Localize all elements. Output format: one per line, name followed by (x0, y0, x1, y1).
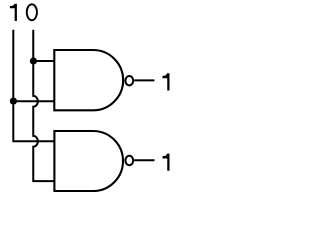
NAND gate U1 inversion bubble (125, 76, 133, 85)
NAND gate U1 body (54, 50, 123, 110)
wire U1 output (134, 79, 154, 81)
node B junction dot (30, 57, 37, 64)
NAND gate U2 body (54, 131, 123, 191)
NAND gate U2 inversion bubble (125, 156, 133, 165)
wire U2 output (134, 159, 154, 161)
input label 1 (10, 4, 17, 21)
wire A vertical (input 1) with corner to U2 upper input (13, 30, 54, 142)
wire A branch to U1 lower input (13, 100, 54, 102)
input label 0 (27, 4, 37, 20)
wire B vertical (input 0) with hops and corner to U2 lower input (33, 30, 54, 181)
wire B branch to U1 upper input (33, 60, 54, 62)
node A junction dot (10, 98, 17, 105)
output label 1 (U1) (163, 73, 170, 90)
output label 1 (U2) (163, 154, 170, 171)
